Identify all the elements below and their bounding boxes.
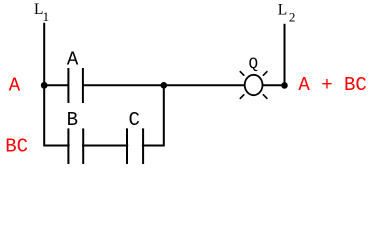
svg-text:A: A xyxy=(9,74,21,96)
svg-text:L: L xyxy=(278,2,287,19)
svg-text:A + BC: A + BC xyxy=(298,74,366,96)
svg-text:A: A xyxy=(67,49,79,71)
svg-text:2: 2 xyxy=(289,9,296,24)
svg-text:1: 1 xyxy=(43,9,50,24)
svg-text:BC: BC xyxy=(5,135,28,157)
svg-text:Q: Q xyxy=(248,55,258,73)
svg-text:C: C xyxy=(129,109,140,131)
svg-text:B: B xyxy=(67,109,78,131)
